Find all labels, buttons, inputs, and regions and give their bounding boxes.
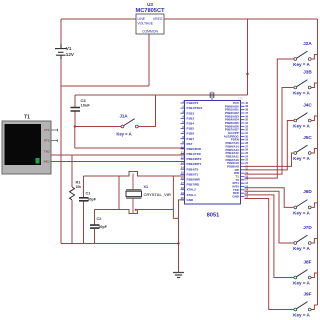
wire top feed V1 to U3 input [61,18,136,20]
svg-text:J8F: J8F [303,259,311,264]
wire left battery rail [60,19,62,244]
wire MCU pin to J2A [245,59,294,178]
wire crystal loop right [173,176,178,218]
svg-text:10k: 10k [76,185,82,189]
svg-text:U3: U3 [147,2,153,7]
svg-text:CRYSTAL_VIR: CRYSTAL_VIR [144,192,171,197]
svg-text:J3B: J3B [303,69,312,74]
svg-text:XTAL1: XTAL1 [187,193,197,197]
MCU right pin stubs [241,103,245,197]
wire J5C to +5V rail [311,149,317,154]
switch J8F [294,276,297,279]
T1 cursor [36,158,40,164]
svg-text:J4C: J4C [303,102,312,107]
wire J1A right riser [139,95,156,127]
svg-text:Key = A: Key = A [293,281,310,286]
T1 pin stub 1 [51,129,58,131]
svg-text:RXD: RXD [44,160,50,164]
wire MCU pin to J3B [245,88,294,175]
svg-text:P1B0/T2: P1B0/T2 [187,101,199,105]
wire +5V horizontal [75,94,248,96]
svg-text:C2: C2 [97,217,102,221]
svg-text:Key = A: Key = A [293,91,310,96]
wire crystal loop left [118,176,120,210]
MCU left pin stubs [181,103,185,200]
node crystal bottom junction [135,209,137,211]
wire +5V drop to MCU [247,19,249,95]
wire J2A to +5V rail [311,55,317,60]
wire to J1A left [75,126,121,128]
svg-text:C1: C1 [86,192,91,196]
resistor R1 [71,155,73,187]
svg-text:P1B6: P1B6 [187,132,195,136]
wire MCU pin to J9F [245,199,294,310]
svg-text:P3B2/INT0: P3B2/INT0 [187,157,202,161]
wire MCU pin to J4C [245,121,294,170]
svg-text:8051: 8051 [207,213,219,219]
switch J3B [294,86,297,89]
svg-text:Key = A: Key = A [293,62,310,67]
MCU VCC pin stub [211,92,213,101]
wire bottom ground rail [61,243,179,245]
ground [173,273,184,278]
wire J3B to +5V rail [311,83,317,88]
svg-text:P1B1/T2EX: P1B1/T2EX [187,106,203,110]
svg-text:LINE: LINE [138,17,146,21]
wire T1 TXD to MCU [51,154,185,156]
wire J9F to +5V rail [311,305,317,310]
terminal T1 body [2,121,51,174]
svg-text:P1B2: P1B2 [187,111,195,115]
svg-text:J2A: J2A [303,41,312,46]
wire crystal loop bottom with hop [95,210,174,214]
svg-text:R1: R1 [76,181,81,185]
wire J7D to +5V rail [311,239,317,244]
svg-text:10uF: 10uF [81,103,91,108]
svg-text:VREG: VREG [153,17,163,21]
svg-text:P3B1/TXD: P3B1/TXD [187,152,202,156]
crystal X1 [132,174,134,190]
wire MCU pin to J8F [245,195,294,278]
svg-text:GND: GND [187,198,195,202]
svg-text:J7D: J7D [303,225,312,230]
wire J6D to +5V rail [311,203,317,208]
wire MCU pin to J7D [245,191,294,243]
svg-text:J6D: J6D [303,189,312,194]
svg-text:Key = A: Key = A [293,246,310,251]
svg-text:XTAL2: XTAL2 [187,188,197,192]
svg-text:P3B5/T1: P3B5/T1 [187,172,199,176]
T1 pin stub 2 [51,139,58,141]
wire J8F to +5V rail [311,273,317,278]
svg-text:P3B4/T0: P3B4/T0 [187,167,199,171]
capacitor C1 [83,176,85,197]
svg-text:J5C: J5C [303,135,312,140]
switch J2A [294,58,297,61]
svg-text:V1: V1 [66,46,72,51]
op-amp U1 8051 box [185,101,241,205]
wire RST drop [74,127,76,149]
switch J7D [294,242,297,245]
svg-text:P1B3: P1B3 [187,116,195,120]
switch J1A [121,125,124,128]
svg-text:X1: X1 [144,185,149,189]
svg-text:GND: GND [232,195,238,199]
svg-text:30pF: 30pF [88,197,97,201]
wire T1 RXD to MCU [51,161,185,163]
svg-text:J9F: J9F [303,291,311,296]
svg-text:P1B4: P1B4 [187,121,195,125]
svg-text:Key = A: Key = A [293,156,310,161]
svg-text:Key = A: Key = A [293,124,310,129]
svg-text:VOLTAGE: VOLTAGE [138,21,154,25]
svg-text:RTS: RTS [44,139,50,143]
svg-text:RST: RST [187,142,193,146]
svg-text:Key = A: Key = A [293,313,310,318]
wire +5V right rail [317,19,319,305]
svg-text:Key = A: Key = A [116,132,131,137]
svg-text:MC7805CT: MC7805CT [135,8,165,14]
wire U3 output to right rail [164,18,318,20]
svg-text:P3B6/WR: P3B6/WR [187,178,201,182]
capacitor C2 [94,210,96,225]
switch J9F [294,308,297,311]
wire MCU pin to J5C [245,153,294,166]
wire RST to MCU [75,147,185,149]
svg-text:U1: U1 [239,97,243,101]
svg-text:COMMON: COMMON [142,30,158,34]
svg-text:12V: 12V [66,52,75,57]
regulator U3 box [136,14,164,34]
capacitor C3 [74,95,76,127]
switch J4C [294,119,297,122]
svg-text:P3B7/RD: P3B7/RD [187,183,201,187]
svg-text:Key = A: Key = A [293,211,310,216]
wire MCU GND [179,200,185,272]
svg-text:P3B3/INT1: P3B3/INT1 [187,162,202,166]
node RST junction [74,125,76,127]
wire U3 common down [148,34,150,86]
battery V1 [55,44,67,59]
node ground rail junction [177,242,179,244]
wire XTAL2 top with hop [84,172,185,177]
svg-text:CTS: CTS [44,128,50,132]
svg-text:P1B5: P1B5 [187,127,195,131]
svg-text:P3B0/RXD: P3B0/RXD [187,147,203,151]
svg-text:P1B7: P1B7 [187,137,195,141]
wire common to battery minus [61,85,149,87]
switch J5C [294,152,297,155]
svg-text:TXD: TXD [44,150,50,154]
svg-text:J1A: J1A [119,114,128,119]
node +5V junction [246,73,248,75]
svg-text:30pF: 30pF [99,225,108,229]
svg-text:T1: T1 [24,115,30,121]
wire MCU pin to J6D [245,188,294,208]
wire J4C to +5V rail [311,116,317,121]
switch J6D [294,206,297,209]
